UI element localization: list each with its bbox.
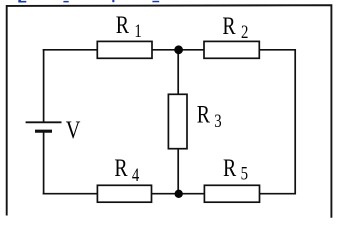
svg-text:R: R xyxy=(222,12,236,40)
svg-text:R: R xyxy=(114,153,128,181)
resistor R5 body xyxy=(204,185,259,202)
svg-text:2: 2 xyxy=(241,22,248,43)
figure frame (top + sides, bottom cut off) xyxy=(7,5,332,218)
label R5 xyxy=(223,153,248,183)
blue text fragment bowl bottom xyxy=(63,1,68,3)
svg-text:4: 4 xyxy=(132,164,140,185)
wire: middle vertical branch through R3 xyxy=(177,50,179,194)
resistor R4 body xyxy=(97,185,151,202)
label R4 xyxy=(114,153,139,185)
resistor R2 body xyxy=(204,41,259,58)
battery V: long plate (+) xyxy=(26,121,62,123)
resistor R3 body xyxy=(168,94,187,148)
svg-text:5: 5 xyxy=(241,163,248,184)
wire: top horizontal node A-B xyxy=(43,49,296,51)
resistor R1 body xyxy=(97,41,152,58)
wire: left vertical below battery xyxy=(43,132,45,194)
label R2 xyxy=(222,12,248,43)
junction node bottom (between R4,R5,R3) xyxy=(175,190,183,198)
svg-text:R: R xyxy=(116,11,130,39)
wire: bottom horizontal node C-D xyxy=(43,193,296,195)
battery V: short thick plate (-) xyxy=(35,130,52,133)
svg-text:1: 1 xyxy=(134,20,141,41)
svg-text:R: R xyxy=(223,153,237,181)
wire: right vertical branch xyxy=(294,49,296,195)
junction node top (between R1,R2,R3) xyxy=(174,45,183,54)
wire: left vertical above battery xyxy=(43,49,45,122)
svg-text:V: V xyxy=(66,116,81,144)
blue text fragment stem tick xyxy=(112,0,114,2)
svg-text:R: R xyxy=(197,100,211,128)
blue text fragment descender bottom xyxy=(152,1,159,3)
label R1 xyxy=(116,11,142,41)
blue text fragment (cut-off line) L-shape xyxy=(18,0,26,3)
svg-text:3: 3 xyxy=(214,111,221,132)
label R3 xyxy=(197,100,222,131)
